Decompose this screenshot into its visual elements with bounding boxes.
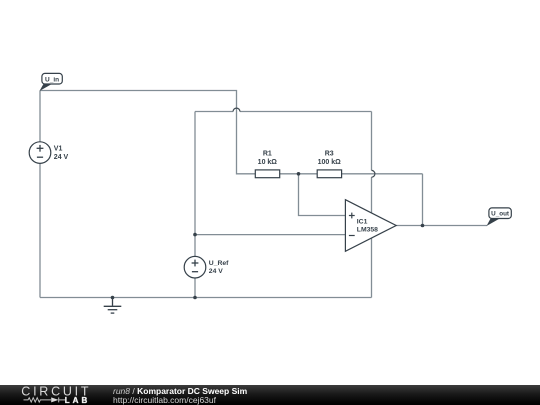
wire: U_Ref bottom lead bbox=[194, 278, 196, 298]
wire top: U_in node to R1 branch bbox=[40, 91, 255, 174]
wire: op-amp output bbox=[396, 225, 487, 227]
V1 labels bbox=[54, 146, 69, 162]
svg-text:LAB: LAB bbox=[65, 396, 91, 405]
wire: mid horizontal (U_Ref branch to right vertical), gap at hop bbox=[195, 111, 233, 113]
wire: R1 to R3 bbox=[280, 173, 318, 175]
svg-text:100 kΩ: 100 kΩ bbox=[318, 159, 342, 166]
junction: U_Ref to inverting input bbox=[193, 233, 197, 237]
svg-text:R1: R1 bbox=[263, 150, 272, 157]
wire: V1 bottom to ground rail bbox=[39, 163, 41, 297]
junction: output node bbox=[421, 224, 425, 228]
junction: ground on rail bbox=[111, 296, 115, 300]
wire: inverting input from U_Ref node bbox=[195, 234, 345, 236]
net flag U_in bbox=[40, 73, 63, 91]
voltage source V1 bbox=[29, 142, 51, 164]
footer title and url bbox=[113, 385, 247, 405]
R3 labels bbox=[318, 150, 342, 166]
svg-text:24 V: 24 V bbox=[54, 154, 69, 161]
wire: right vertical rail, gap at hop bbox=[371, 112, 373, 171]
resistor R1 bbox=[255, 170, 279, 178]
wire: U_Ref top vertical bbox=[194, 112, 196, 257]
wire hop over horizontal at 371.5,173.8 bbox=[372, 170, 375, 177]
U_Ref labels bbox=[209, 260, 229, 275]
svg-text:U_in: U_in bbox=[45, 76, 59, 83]
net flag U_out bbox=[487, 208, 512, 226]
op-amp IC1 bbox=[345, 200, 396, 252]
wire: node A to non-inverting input bbox=[299, 174, 346, 216]
wire: feedback vertical to output node bbox=[422, 174, 424, 226]
junction: U_Ref bottom on rail bbox=[193, 296, 197, 300]
voltage source U_Ref bbox=[184, 256, 206, 278]
svg-text:LM358: LM358 bbox=[357, 226, 378, 233]
svg-text:V1: V1 bbox=[54, 146, 63, 153]
svg-text:IC1: IC1 bbox=[357, 219, 368, 226]
resistor R3 bbox=[317, 170, 341, 178]
R1 labels bbox=[258, 150, 278, 166]
svg-text:24 V: 24 V bbox=[209, 268, 223, 275]
footer bar bbox=[0, 385, 540, 405]
junction: node A between R1 and R3 bbox=[297, 172, 301, 176]
wire: bottom rail bbox=[40, 297, 372, 299]
svg-text:U_Ref: U_Ref bbox=[209, 260, 229, 267]
wire: V1 top lead bbox=[39, 91, 41, 143]
wire: R3 to feedback corner bbox=[342, 173, 423, 175]
svg-text:R3: R3 bbox=[325, 150, 334, 157]
svg-text:10 kΩ: 10 kΩ bbox=[258, 159, 278, 166]
ground bbox=[104, 298, 122, 314]
wire hop over vertical at 236.5,111.5 bbox=[233, 108, 240, 111]
svg-text:U_out: U_out bbox=[491, 211, 510, 218]
IC1 labels bbox=[357, 219, 378, 234]
CircuitLab logo bbox=[15, 385, 115, 405]
